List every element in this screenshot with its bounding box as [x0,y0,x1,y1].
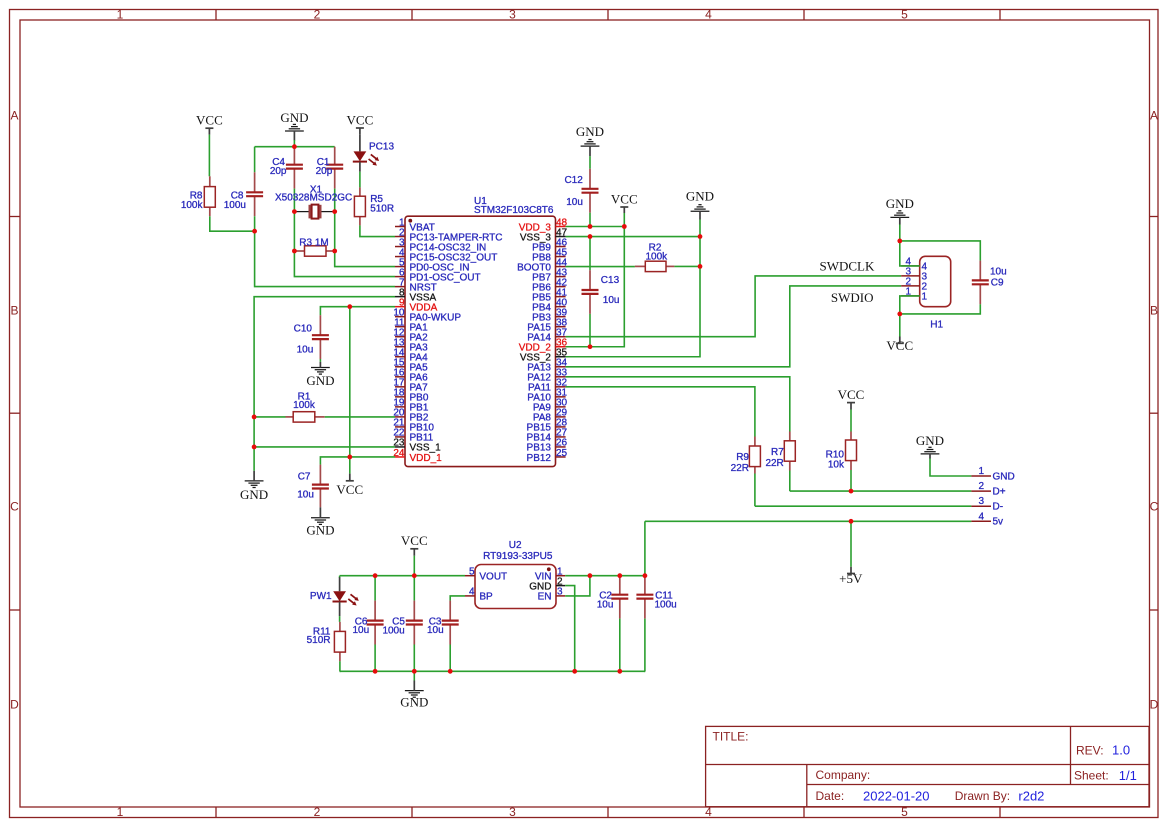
svg-text:2: 2 [978,481,984,492]
svg-text:20p: 20p [316,166,333,177]
R8 labels R8 / 100k [181,191,204,212]
wire VOUT corner down to LED PW1 [339,576,341,578]
wire LED PW1 to R11 [339,616,341,622]
U1 pin 44 (BOOT0) stub [556,266,566,268]
U2 pin 5 (VOUT) stub [465,575,475,577]
U1 pin 1 (VBAT) stub [395,226,405,228]
U1 pin 19 (PB1) stub [395,406,405,408]
wire R10 bottom to D+ row [850,470,852,491]
U1 pin 48 (VDD_3) stub [556,226,566,228]
svg-text:X50328MSD2GC: X50328MSD2GC [275,193,352,204]
wire C5 bottom to rail [413,645,415,672]
svg-text:1: 1 [117,805,124,819]
svg-text:100u: 100u [655,600,677,611]
svg-text:GND: GND [993,471,1015,482]
svg-text:VCC: VCC [611,192,638,207]
wire R3 left down to U1 pin6 PD1-OSC_OUT [294,251,395,277]
svg-text:B: B [10,304,18,318]
junction [412,669,417,674]
svg-text:1/1: 1/1 [1119,768,1137,783]
svg-text:100k: 100k [181,200,204,211]
svg-text:A: A [1150,109,1158,123]
svg-text:5v: 5v [993,517,1004,528]
wire GND junction to H1 pin4 [900,241,920,266]
U1 pin 33 (PA12) stub [556,376,566,378]
wire C5 top [413,576,415,601]
C4 labels C4 / 20p [270,157,287,177]
ground symbol (GND below C7) [306,507,334,537]
wire U2 GND pin to bottom rail [565,586,575,672]
svg-text:Company:: Company: [816,768,871,782]
svg-text:3: 3 [509,805,516,819]
wire C4 bottom to X1 left [293,189,295,212]
svg-text:U2: U2 [509,540,522,551]
wire U1 pin48 VDD_3 wire [566,226,625,228]
wire GND stem to rail [293,140,295,147]
resistor R3 [294,246,334,256]
wire GND to USB pin1 [930,459,971,477]
wire VSS_1 rail to U1 pin23 [254,446,395,448]
U1 pin 21 (PB10) stub [395,426,405,428]
U1 pin 4 (PC15-OSC32_OUT) stub [395,256,405,258]
U2 pin 1 (VIN) stub [556,575,565,577]
U1 pin 28 (PB15) stub [556,426,566,428]
svg-text:10u: 10u [597,599,614,610]
ground symbol (GND above C12) [576,124,604,156]
svg-text:SWDCLK: SWDCLK [820,259,876,274]
ground symbol (GND above USB pin1) [916,433,944,459]
U2 pin 4 (BP) stub [465,595,475,597]
C7 labels C7 / 10u [297,471,314,500]
power flag VCC (VCC above C5) [401,533,428,556]
wire U1 pin33 PA12 to R7 [566,377,790,432]
ground symbol (GND below VSSA column) [240,471,268,502]
junction [292,144,297,149]
wire R9 bottom to D- row [754,474,756,507]
wire R3 right down to U1 pin5 PD0-OSC_IN [335,251,395,267]
svg-text:D+: D+ [993,487,1006,498]
R9 labels R9 / 22R [731,452,750,474]
U1 pin 11 (PA1) stub [395,326,405,328]
U1 pin 17 (PA7) stub [395,386,405,388]
ground symbol (GND above C4/C1) [280,110,308,140]
wire U1 pin8 VSSA to GND column [254,297,395,471]
wire VDDA to VDD_1 vertical [349,307,351,457]
svg-text:VDD_1: VDD_1 [410,453,443,464]
U1 pin 23 (VSS_1) stub [395,446,405,448]
svg-text:100k: 100k [293,400,316,411]
power flag VCC (VCC above R10) [838,387,865,409]
U1 pin 27 (PB14) stub [556,436,566,438]
wire R7 bottom to D+ row [789,471,791,492]
C8 labels C8 / 100u [224,191,246,212]
wire C8 bottom to NRST corner to U1 pin7 [255,216,395,286]
U1 pin 45 (PB8) stub [556,256,566,258]
svg-text:r2d2: r2d2 [1018,789,1044,804]
svg-text:10k: 10k [828,460,845,471]
resistor R2 [635,261,675,271]
junction [849,519,854,524]
capacitor C5 [406,601,423,645]
junction [897,239,902,244]
wire 5v wire [645,520,972,522]
power flag +5V [839,567,863,586]
resistor R11 [334,622,345,661]
svg-text:GND: GND [886,196,914,211]
svg-text:22R: 22R [731,463,749,474]
svg-text:C: C [10,500,19,514]
svg-text:10u: 10u [990,267,1007,278]
U1 pin 39 (PB3) stub [556,316,566,318]
junction [698,234,703,239]
junction [448,669,453,674]
junction [412,573,417,578]
ground symbol (GND above H1) [886,196,914,224]
R3 labels [299,238,328,249]
wire GND to C12 top [589,156,591,169]
ground symbol (GND below C10) [306,362,334,388]
resistor R8 [204,176,215,216]
USB pin 2 (D+) stub [971,490,991,492]
svg-text:PC13: PC13 [369,142,394,153]
U1 pin 24 (VDD_1) stub [395,456,405,458]
junction [617,669,622,674]
svg-text:C12: C12 [564,175,583,186]
title block [706,726,1149,806]
junction [347,455,352,460]
svg-text:C9: C9 [991,277,1004,288]
U1 pin 40 (PB4) stub [556,306,566,308]
LED PC13 [353,151,379,165]
svg-text:3: 3 [557,587,563,598]
C2 labels C2 / 10u [597,591,614,611]
C5 labels C5 / 100u [382,617,405,637]
wire C11 bottom to rail [644,619,646,672]
U1 pin 30 (PA9) stub [556,406,566,408]
C13 labels C13 / 10u [601,275,620,306]
R11 labels R11 / 510R [307,627,331,647]
capacitor C1 [326,147,343,189]
junction [252,415,257,420]
wire C6 top [374,576,376,601]
capacitor C9 [972,261,989,305]
U1 pin 37 (PA14) stub [556,336,566,338]
resistor R10 [846,432,857,471]
capacitor C13 [582,270,599,314]
wire VIN row wire [565,575,645,577]
wire C1 bottom to X1 right [334,189,336,212]
crystal X1 [294,205,334,219]
svg-text:PW1: PW1 [310,591,332,602]
resistor R9 [749,437,760,474]
wire C8 top [254,147,256,173]
U1 pin 32 (PA11) stub [556,386,566,388]
svg-text:10u: 10u [353,625,370,636]
U1 pin 42 (PB6) stub [556,286,566,288]
wire VCC to R8 top [208,135,210,177]
H1 pin 3 stub [901,275,920,277]
U1 pin 18 (PB0) stub [395,396,405,398]
svg-text:R7: R7 [771,447,784,458]
C11 labels C11 / 100u [655,591,677,611]
wire GND stem down to H1 junction [899,225,901,241]
svg-text:C13: C13 [601,275,620,286]
svg-text:Sheet:: Sheet: [1074,769,1109,783]
svg-text:VCC: VCC [336,482,363,497]
svg-text:VCC: VCC [401,533,428,548]
USB pin 1 (GND) stub [971,475,991,477]
wire VSS riser GND to VSS_2 [566,237,700,357]
junction [373,573,378,578]
junction [588,224,593,229]
R5 labels R5 / 510R [370,194,394,215]
svg-text:GND: GND [916,433,944,448]
svg-text:TITLE:: TITLE: [713,730,749,744]
svg-text:R3 1M: R3 1M [299,238,328,249]
wire C2 bottom to rail [619,619,621,672]
junction [897,312,902,317]
wire gnd rail C8-C4-C1 [255,146,335,148]
wire R2 right to riser [674,265,700,267]
U2 pin 3 (EN) stub [556,595,565,597]
wire R8 bottom to NRST junction [210,216,255,231]
svg-text:R9: R9 [736,452,749,463]
svg-text:C10: C10 [294,323,313,334]
junction [617,573,622,578]
ground symbol (GND below rail) [400,681,428,710]
wire C13 bottom to VDD_2 row [589,314,591,347]
wire 5v down to VIN row [644,521,646,575]
svg-text:510R: 510R [370,204,394,215]
svg-text:100u: 100u [224,200,246,211]
svg-text:GND: GND [240,487,268,502]
svg-text:2022-01-20: 2022-01-20 [863,789,930,804]
wire VCC to R10 top [850,410,852,432]
wire BP to C3 top [450,596,465,601]
capacitor C8 [246,172,263,216]
svg-text:22R: 22R [765,458,783,469]
junction [252,229,257,234]
U1 pin 36 (VDD_2) stub [556,346,566,348]
svg-text:GND: GND [400,694,428,709]
svg-text:510R: 510R [307,635,331,646]
junction [292,249,297,254]
op-amp U2 (regulator RT9193-33PU5 body) [475,565,556,609]
wire C13 top from VSS_3 row [589,237,591,271]
wire R1 left wire [254,416,285,418]
U1 pin 10 (PA0-WKUP) stub [395,316,405,318]
svg-text:5: 5 [901,8,908,22]
svg-text:REV:: REV: [1076,743,1104,757]
U1 pin 43 (PB7) stub [556,276,566,278]
svg-text:VCC: VCC [838,387,865,402]
wire X1 left down to R3 left [293,212,295,251]
svg-text:1: 1 [117,8,124,22]
U2 pin 2 (GND) stub [556,585,565,587]
svg-text:VCC: VCC [347,113,374,128]
wire U1 pin37 PA14 to SWDCLK [566,276,902,337]
U1 pin 47 (VSS_3) stub [556,236,566,238]
wire rail to GND stem [413,671,415,680]
junction [373,669,378,674]
wire U1 pin24 VDD_1 wire [320,457,395,465]
connector H1 body [920,256,951,306]
capacitor C4 [286,147,303,189]
LED PW1 anode lead [339,577,341,591]
svg-text:GND: GND [306,523,334,538]
svg-text:STM32F103C8T6: STM32F103C8T6 [474,205,554,216]
wire VCC junction stem [899,314,901,337]
U1 pin 9 (VDDA) stub [395,306,405,308]
junction [698,264,703,269]
R1 labels [293,391,316,411]
junction [292,209,297,214]
wire C12 bottom to VDD_3 row [589,213,591,227]
svg-text:VOUT: VOUT [479,572,507,583]
capacitor C6 [367,601,384,645]
svg-text:H1: H1 [930,320,943,331]
capacitor C3 [442,601,459,645]
C1 labels C1 / 20p [316,157,333,177]
R2 labels [646,243,669,263]
svg-text:RT9193-33PU5: RT9193-33PU5 [483,551,553,562]
svg-text:10u: 10u [297,490,314,501]
svg-text:24: 24 [393,448,405,459]
svg-text:GND: GND [686,189,714,204]
junction [332,249,337,254]
R7 labels R7 / 22R [765,447,784,469]
svg-text:1: 1 [978,466,984,477]
wire R1 right to U1 pin20 PB2 [325,416,395,418]
H1 pin 1 stub [901,295,920,297]
U1 pin 15 (PA5) stub [395,366,405,368]
wire C3 bottom to rail [449,645,451,672]
resistor R5 [354,187,365,225]
junction [572,669,577,674]
wire H1 pin1 to VCC junction [900,296,920,314]
ground symbol (GND above VSS_3 end) [686,189,714,220]
wire C9 bottom to VCC junction [900,304,981,314]
wire R11 bottom to rail [339,661,341,671]
svg-text:20p: 20p [270,166,287,177]
wire LED PC13 cathode to R5 [359,172,361,188]
power flag VCC (VCC near R8) [196,113,223,135]
svg-text:2: 2 [314,8,321,22]
U1 pin 31 (PA10) stub [556,396,566,398]
LED PW1 cathode lead [339,602,341,616]
svg-text:25: 25 [556,448,568,459]
U1 pin 20 (PB2) stub [395,416,405,418]
svg-text:D-: D- [993,502,1004,513]
wire VOUT row wire [340,575,465,577]
power flag VCC (VCC below H1) [886,337,913,354]
U1 pin 2 (PC13-TAMPER-RTC) stub [395,236,405,238]
svg-text:C: C [1150,500,1159,514]
wire C6 bottom to rail [374,645,376,672]
svg-text:EN: EN [538,592,552,603]
junction [588,344,593,349]
svg-text:10u: 10u [566,197,583,208]
wire U1 pin32 PA11 to R9 [566,387,755,437]
svg-text:5: 5 [469,567,475,578]
capacitor C7 [312,465,329,508]
svg-text:GND: GND [576,124,604,139]
C12 labels C12 / 10u [564,175,583,208]
U1 pin 7 (NRST) stub [395,286,405,288]
junction [332,209,337,214]
wire U1 pin44 BOOT0 wire to R2 [566,266,635,268]
power flag VCC (VCC above PC13 LED) [347,113,374,135]
svg-text:SWDIO: SWDIO [831,290,874,305]
U1 pin 26 (PB13) stub [556,446,566,448]
wire 5v to +5V flag [850,521,852,567]
capacitor C11 [636,577,653,619]
svg-text:D: D [1150,698,1159,712]
svg-text:VCC: VCC [196,113,223,128]
svg-text:Drawn By:: Drawn By: [955,789,1010,803]
U1 pin 12 (PA2) stub [395,336,405,338]
U1 pin 14 (PA4) stub [395,356,405,358]
svg-text:10u: 10u [297,345,314,356]
U1 pin 25 (PB12) stub [556,456,566,458]
svg-text:PB12: PB12 [527,453,552,464]
junction [347,304,352,309]
svg-text:4: 4 [469,587,475,598]
USB pin 4 (5v) stub [971,520,991,522]
svg-text:D: D [10,698,19,712]
capacitor C12 [582,169,599,213]
svg-text:Date:: Date: [816,789,845,803]
junction [588,573,593,578]
wire VDD_1 to VCC stem [349,457,351,474]
svg-text:GND: GND [306,373,334,388]
svg-text:100k: 100k [646,251,669,262]
U1 pin 35 (VSS_2) stub [556,356,566,358]
LED PC13 cathode lead [359,162,361,172]
svg-text:4: 4 [705,8,712,22]
svg-text:+5V: +5V [839,571,863,586]
resistor R7 [784,432,795,471]
wire U1 pin47 VSS_3 wire [566,236,700,238]
svg-text:BP: BP [479,592,493,603]
junction [849,489,854,494]
U1 pin 8 (VSSA) stub [395,296,405,298]
svg-text:1: 1 [922,292,928,303]
wire U1 pin9 VDDA wire [320,307,395,316]
H1 pin 4 stub [901,265,920,267]
U1 pin 46 (PB9) stub [556,246,566,248]
svg-text:3: 3 [978,496,984,507]
LED PW1 [333,591,359,605]
USB pin 3 (D-) stub [971,505,991,507]
wire VDD_3 riser to VDD_2 row [566,227,625,347]
U1 pin 16 (PA6) stub [395,376,405,378]
U1 pin 34 (PA13) stub [556,366,566,368]
U1 pin 13 (PA3) stub [395,346,405,348]
C9 labels C9 / 10u [990,267,1007,289]
wire GND stem to VSS_3 row [699,220,701,237]
U1 pin 29 (PA8) stub [556,416,566,418]
U1 pin 3 (PC14-OSC32_IN) stub [395,246,405,248]
wire GND branch to C9 top [900,241,981,261]
junction [643,573,648,578]
svg-text:4: 4 [978,511,984,522]
wire EN tie to VIN [565,576,590,596]
svg-text:3: 3 [509,8,516,22]
U1 pin 22 (PB11) stub [395,436,405,438]
svg-text:A: A [10,109,18,123]
R10 labels R10 / 10k [826,449,845,470]
